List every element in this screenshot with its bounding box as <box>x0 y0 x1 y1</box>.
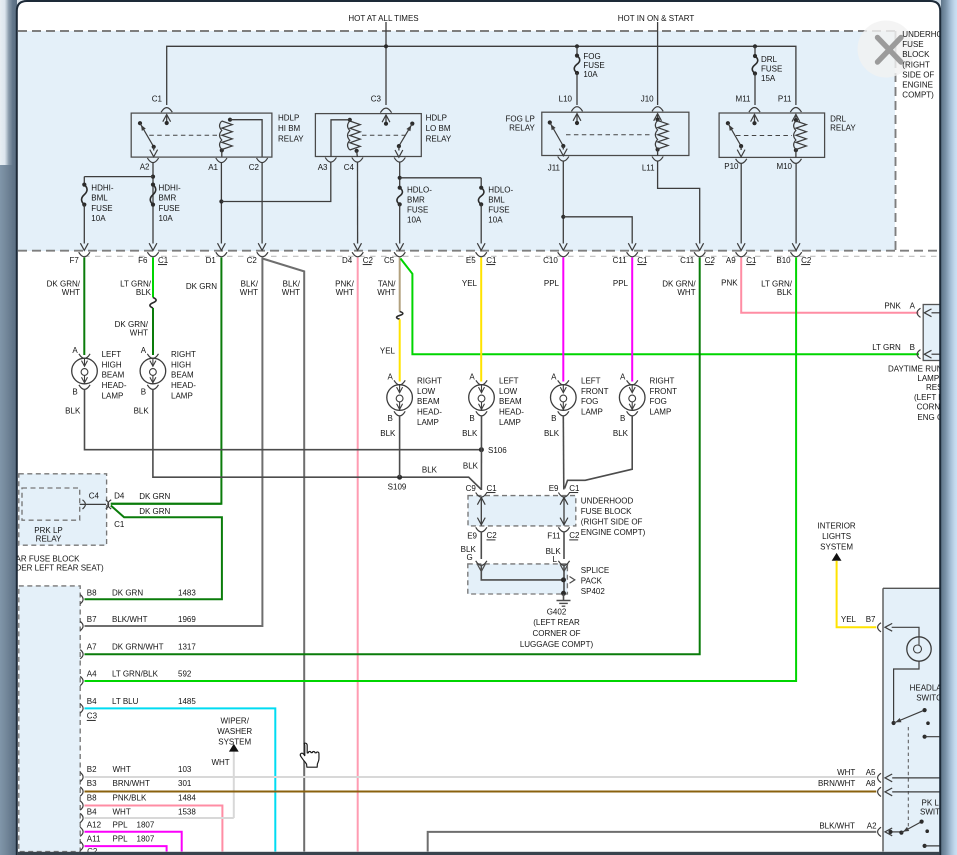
box2 internal wire left <box>480 497 482 526</box>
wire J11 to C10 <box>562 162 564 244</box>
rear fuse block pin B4 WHT <box>80 813 83 822</box>
svg-text:J11: J11 <box>548 164 561 173</box>
svg-text:HDLO-: HDLO- <box>488 185 513 194</box>
connector C9 C1 <box>476 493 487 498</box>
svg-text:C11: C11 <box>613 256 628 265</box>
svg-text:B: B <box>72 387 77 396</box>
svg-text:BRN/WHT: BRN/WHT <box>113 779 150 788</box>
wire C2 BLK/WHT to B7 <box>85 258 263 627</box>
junction dot J11 branch <box>561 215 565 219</box>
svg-text:HEAD-: HEAD- <box>171 381 196 390</box>
connector F6 C1 at fuse block output <box>147 252 158 257</box>
svg-text:M11: M11 <box>736 95 752 104</box>
svg-text:HDHI-: HDHI- <box>159 183 182 192</box>
svg-text:1969: 1969 <box>178 615 196 624</box>
svg-text:L: L <box>553 555 558 564</box>
svg-text:C2: C2 <box>705 256 716 265</box>
svg-text:HOT IN ON & START: HOT IN ON & START <box>618 14 695 23</box>
svg-text:C4: C4 <box>344 163 355 172</box>
svg-text:J10: J10 <box>641 95 654 104</box>
svg-text:B: B <box>469 414 474 423</box>
pin A2 <box>147 158 158 163</box>
svg-text:SPLICE: SPLICE <box>581 566 609 575</box>
wire branch to HDHI-BML fuse <box>84 176 153 178</box>
svg-text:WHT: WHT <box>130 328 148 337</box>
svg-text:HIGH: HIGH <box>102 360 122 369</box>
svg-text:PPL: PPL <box>613 279 629 288</box>
lamp RIGHT LOW BEAM HEADLAMP <box>394 380 405 385</box>
svg-text:YEL: YEL <box>462 279 478 288</box>
svg-text:F6: F6 <box>138 256 148 265</box>
relay DRL RELAY box <box>719 113 825 157</box>
wire B4 LT BLU <box>85 708 276 851</box>
svg-text:HDHI-: HDHI- <box>91 183 114 192</box>
lamp LEFT HIGH BEAM HEADLAMP <box>79 354 90 359</box>
junction dot A1/A3 <box>219 199 223 203</box>
svg-text:BLK: BLK <box>65 406 81 415</box>
svg-text:A: A <box>387 372 393 381</box>
pin C1 connector <box>161 108 172 113</box>
wire left high beam B BLK to S106 <box>85 390 482 450</box>
svg-text:C5: C5 <box>384 256 395 265</box>
svg-text:BLK/WHT: BLK/WHT <box>819 822 855 831</box>
wire branch to C11 <box>563 217 632 244</box>
svg-text:WHT: WHT <box>677 288 695 297</box>
relay 4 switch <box>726 121 730 125</box>
svg-text:SYSTEM: SYSTEM <box>218 737 251 746</box>
svg-text:BML: BML <box>91 194 108 203</box>
wire DK GRN 2 / C1 to B8 <box>85 506 222 600</box>
svg-text:RIGHT: RIGHT <box>650 376 675 385</box>
svg-text:M10: M10 <box>776 162 792 171</box>
pin A3 <box>325 158 336 163</box>
splice pack internal wires <box>477 564 485 571</box>
wire L11 to C11 C2 <box>658 162 700 244</box>
fuse HDHI-BMR FUSE 10A <box>151 183 155 187</box>
relay 2 coil <box>348 118 352 122</box>
wire B2 WHT to A5 <box>85 776 877 778</box>
svg-text:FUSE: FUSE <box>488 205 509 214</box>
svg-text:LT GRN: LT GRN <box>872 343 901 352</box>
rear fuse block pin B8 PNK/BLK <box>80 801 83 810</box>
relay PRK LP RELAY box <box>22 488 80 520</box>
underhood fuse block (right side of engine compt) box <box>468 496 576 526</box>
wire B4 WHT 1538 <box>85 817 234 819</box>
wire M10 to B10 <box>795 163 797 243</box>
svg-text:HEAD-: HEAD- <box>102 381 127 390</box>
svg-text:RELAY: RELAY <box>426 134 452 143</box>
svg-text:FUSE: FUSE <box>159 204 180 213</box>
svg-text:C1: C1 <box>114 520 125 529</box>
pin P10 <box>736 159 747 164</box>
svg-text:LAMP: LAMP <box>581 408 603 417</box>
connector C4/D4 inline <box>106 500 109 509</box>
svg-text:10A: 10A <box>488 215 503 224</box>
svg-text:LAMP: LAMP <box>171 392 193 401</box>
wire F6 LT GRN/BLK <box>152 258 154 298</box>
svg-text:B4: B4 <box>87 697 97 706</box>
wire E5 YEL <box>480 258 482 382</box>
relay 4 coil link dashed <box>736 135 792 137</box>
svg-text:UNDERHOOD: UNDERHOOD <box>581 496 634 505</box>
pin J11 <box>558 157 569 162</box>
svg-text:PNK/BLK: PNK/BLK <box>113 794 147 803</box>
connector row fine dashed line <box>84 255 941 257</box>
wire BLK G <box>480 532 482 560</box>
lamp headlamp switch illumination <box>907 637 931 661</box>
rear fuse block pin A11 PPL <box>80 842 83 851</box>
underhood fuse block region fill <box>18 31 895 251</box>
rear fuse block pin B8 DK GRN 1483 <box>80 595 83 604</box>
junction dot A2 branch <box>151 175 155 179</box>
junction dot bus/FOG FUSE <box>575 44 579 48</box>
relay HDLP LO BM RELAY box <box>315 114 421 157</box>
relay 3 coil <box>656 117 660 121</box>
svg-text:BLK: BLK <box>380 429 396 438</box>
relay 4 coil <box>794 118 798 122</box>
wire fuse to F7 <box>83 205 85 244</box>
svg-text:B8: B8 <box>87 794 97 803</box>
svg-text:RIGHT: RIGHT <box>417 376 442 385</box>
pin L11 <box>652 157 663 162</box>
connector E9 C2 <box>476 527 487 532</box>
connector C2 at fuse block output <box>257 252 268 257</box>
wire right low beam B BLK <box>399 417 401 478</box>
fuse FOG FUSE 10A <box>576 46 578 55</box>
svg-text:1317: 1317 <box>178 642 196 651</box>
connector F11 C2 <box>558 527 569 532</box>
wire C5 YEL to right low beam <box>399 319 401 381</box>
svg-text:1484: 1484 <box>178 794 196 803</box>
svg-text:PPL: PPL <box>113 821 129 830</box>
box2 internal wire right <box>563 497 565 526</box>
ground G402 <box>563 594 565 600</box>
connector D4 C2 at fuse block output <box>352 252 363 257</box>
svg-text:D4: D4 <box>342 256 353 265</box>
svg-text:LUGGAGE COMPT): LUGGAGE COMPT) <box>520 640 594 649</box>
pin A1 <box>216 158 227 163</box>
arrow to interior lights system <box>832 553 842 561</box>
rear fuse block pin A4 LT GRN/BLK 592 <box>80 676 83 685</box>
daytime running lamps resistor box <box>923 305 957 361</box>
svg-text:FUSE BLOCK: FUSE BLOCK <box>581 507 632 516</box>
svg-text:BLK: BLK <box>136 288 152 297</box>
wire relay2 switch to C5 <box>399 162 401 187</box>
relay 2 switch <box>410 122 414 126</box>
svg-text:WHT: WHT <box>113 765 131 774</box>
rear fuse block pin A7 DK GRN/WHT 1317 <box>80 650 83 659</box>
relay 1 switch <box>138 121 142 125</box>
svg-text:E5: E5 <box>466 256 476 265</box>
svg-text:WHT: WHT <box>113 807 131 816</box>
svg-text:A3: A3 <box>318 163 328 172</box>
svg-text:BEAM: BEAM <box>499 397 522 406</box>
svg-text:HDLP: HDLP <box>426 113 447 122</box>
splice pack input cups <box>476 561 487 566</box>
svg-text:A1: A1 <box>208 163 218 172</box>
svg-text:DK GRN: DK GRN <box>139 507 170 516</box>
svg-text:LEFT: LEFT <box>499 376 519 385</box>
svg-text:P10: P10 <box>724 162 739 171</box>
svg-text:A: A <box>141 346 147 355</box>
svg-text:PPL: PPL <box>544 279 560 288</box>
junction dot SP402 <box>561 577 566 582</box>
svg-text:WHT: WHT <box>240 288 258 297</box>
svg-text:BEAM: BEAM <box>102 371 125 380</box>
svg-text:B8: B8 <box>87 588 97 597</box>
svg-text:A7: A7 <box>87 642 97 651</box>
svg-text:B7: B7 <box>87 615 97 624</box>
svg-text:RELAY: RELAY <box>830 124 856 133</box>
svg-text:C1: C1 <box>486 256 497 265</box>
svg-text:DAYTIME RUN: DAYTIME RUN <box>888 364 943 373</box>
svg-text:15A: 15A <box>761 74 776 83</box>
lamp LEFT FRONT FOG LAMP <box>558 380 569 385</box>
svg-text:E9: E9 <box>467 532 477 541</box>
park lamp switch contacts <box>888 830 892 834</box>
svg-text:AR FUSE BLOCK: AR FUSE BLOCK <box>16 554 81 563</box>
relay 1 coil to A1 wire <box>221 150 223 156</box>
svg-text:A2: A2 <box>867 822 877 831</box>
mechanical link dashed <box>907 727 909 829</box>
svg-text:S106: S106 <box>488 446 507 455</box>
svg-text:PPL: PPL <box>113 834 129 843</box>
wire C5 LT GRN branch to DRL resistor <box>401 259 920 355</box>
svg-text:E9: E9 <box>549 484 559 493</box>
svg-text:C3: C3 <box>87 712 98 721</box>
relay FOG LP RELAY box <box>542 112 689 155</box>
svg-text:BEAM: BEAM <box>171 371 194 380</box>
svg-text:B7: B7 <box>866 615 876 624</box>
wire BLK/WHT to A2 <box>428 832 877 852</box>
wire B7 to dome lamp <box>892 627 919 637</box>
pin M11 connector <box>749 108 760 113</box>
close button <box>858 21 915 78</box>
svg-text:SYSTEM: SYSTEM <box>820 542 853 551</box>
connector B7 headlamp switch <box>878 623 881 632</box>
junction dot SP402 bottom <box>561 591 566 596</box>
headlamp switch box <box>883 588 957 851</box>
svg-text:C2: C2 <box>801 256 812 265</box>
svg-text:1807: 1807 <box>137 834 155 843</box>
svg-text:B3: B3 <box>87 779 97 788</box>
connector C11 C2 at fuse block output <box>694 252 705 257</box>
wire C4 to D4 <box>357 162 359 243</box>
svg-text:301: 301 <box>178 779 192 788</box>
fuse DRL FUSE 15A <box>754 46 756 56</box>
pin C2 <box>257 158 268 163</box>
svg-text:BLK: BLK <box>422 466 438 475</box>
wire A12 PPL <box>85 832 182 852</box>
svg-text:LAMP: LAMP <box>650 408 672 417</box>
svg-text:FUSE: FUSE <box>91 204 112 213</box>
svg-text:A: A <box>469 372 475 381</box>
svg-text:ENGINE: ENGINE <box>902 80 933 89</box>
svg-text:F7: F7 <box>69 256 79 265</box>
lamp RIGHT HIGH BEAM HEADLAMP <box>147 354 158 359</box>
svg-text:BLK: BLK <box>134 406 150 415</box>
svg-text:FRONT: FRONT <box>650 387 678 396</box>
svg-text:PACK: PACK <box>581 576 603 585</box>
svg-text:PNK: PNK <box>884 301 901 310</box>
svg-text:WHT: WHT <box>62 288 80 297</box>
svg-text:WASHER: WASHER <box>217 727 252 736</box>
svg-text:A: A <box>72 346 78 355</box>
svg-text:B: B <box>910 343 915 352</box>
fuse HDLO-BML FUSE 10A <box>479 186 483 190</box>
svg-text:RELAY: RELAY <box>36 535 62 544</box>
wire C2 BLK/WHT branch 2 <box>262 259 304 852</box>
svg-text:A9: A9 <box>726 256 736 265</box>
splice C5 wire <box>397 312 403 320</box>
relay 3 switch <box>548 120 552 124</box>
svg-text:A11: A11 <box>87 834 101 843</box>
svg-text:L10: L10 <box>559 95 573 104</box>
svg-text:BMR: BMR <box>159 194 177 203</box>
connector E5 C1 at fuse block output <box>476 252 487 257</box>
wire C11 DK GRN/WHT to A7 <box>85 258 700 655</box>
arrow to wiper/washer system <box>229 744 239 752</box>
svg-text:C11: C11 <box>680 256 695 265</box>
wire B+ bus <box>167 46 796 105</box>
svg-text:DER LEFT REAR SEAT): DER LEFT REAR SEAT) <box>16 564 105 573</box>
svg-text:BEAM: BEAM <box>417 397 440 406</box>
svg-text:A2: A2 <box>140 163 150 172</box>
wire D1 DK GRN <box>111 258 222 504</box>
pin relay2 switch out <box>394 158 405 163</box>
wire P10 to A9 <box>740 163 742 243</box>
svg-text:FUSE: FUSE <box>902 40 923 49</box>
svg-text:BLK: BLK <box>777 288 793 297</box>
svg-text:DK GRN: DK GRN <box>139 492 170 501</box>
pin J10 connector <box>652 107 663 112</box>
svg-text:FUSE: FUSE <box>583 61 604 70</box>
wire F6 DK GRN/WHT to right high beam <box>152 308 154 355</box>
svg-text:103: 103 <box>178 765 192 774</box>
svg-text:FUSE: FUSE <box>761 64 782 73</box>
svg-text:C2: C2 <box>363 256 374 265</box>
svg-text:HI BM: HI BM <box>278 124 301 133</box>
lamp RIGHT FRONT FOG LAMP <box>627 380 638 385</box>
svg-text:1485: 1485 <box>178 697 196 706</box>
svg-text:A8: A8 <box>866 779 876 788</box>
svg-text:FOG: FOG <box>581 397 598 406</box>
svg-text:B2: B2 <box>87 765 97 774</box>
rear fuse block pin B2 WHT <box>80 772 83 781</box>
svg-text:HEAD-: HEAD- <box>417 408 442 417</box>
svg-text:B4: B4 <box>87 807 97 816</box>
wire HOT AT ALL TIMES feed <box>385 22 387 105</box>
svg-text:LAMP: LAMP <box>417 418 439 427</box>
svg-text:BMR: BMR <box>407 195 425 204</box>
svg-text:C10: C10 <box>543 256 558 265</box>
wire C11 PPL <box>631 258 633 382</box>
svg-text:SP402: SP402 <box>581 587 606 596</box>
connector A5 WHT <box>878 773 881 782</box>
rear fuse block pin B3 BRN/WHT <box>80 787 83 796</box>
svg-text:DK GRN: DK GRN <box>112 588 143 597</box>
svg-text:BLK: BLK <box>463 462 479 471</box>
corner fillers <box>16 0 27 10</box>
svg-text:INTERIOR: INTERIOR <box>817 521 855 530</box>
svg-text:BLK: BLK <box>613 429 629 438</box>
svg-text:LT BLU: LT BLU <box>112 697 139 706</box>
wire DK GRN 1 to D1 <box>111 503 222 505</box>
rear fuse block (under left rear seat) box <box>19 586 80 852</box>
connector C5 at fuse block output <box>394 252 405 257</box>
svg-text:DK GRN: DK GRN <box>186 282 217 291</box>
svg-text:G: G <box>466 553 472 562</box>
svg-text:ENGINE COMPT): ENGINE COMPT) <box>581 528 646 537</box>
pin C4 <box>352 158 363 163</box>
wire C10 PPL <box>562 258 564 382</box>
lamp LEFT LOW BEAM HEADLAMP <box>476 380 487 385</box>
splice F6 wire <box>150 298 156 309</box>
connector F7 at fuse block output <box>79 252 90 257</box>
svg-text:HIGH: HIGH <box>171 360 191 369</box>
wire C2 pin down <box>261 163 263 244</box>
wire right front fog B BLK <box>565 417 633 489</box>
svg-text:BLK/WHT: BLK/WHT <box>112 615 148 624</box>
svg-text:YEL: YEL <box>841 615 857 624</box>
svg-text:DRL: DRL <box>761 55 778 64</box>
pin C3 connector <box>380 108 391 113</box>
relay HDLP HI BM RELAY box <box>131 113 272 157</box>
svg-text:(RIGHT SIDE OF: (RIGHT SIDE OF <box>581 517 643 526</box>
svg-text:YEL: YEL <box>380 346 396 355</box>
right scrollbar <box>941 0 957 855</box>
wire B10 LT GRN/BLK to A4 <box>85 258 797 682</box>
svg-text:LOW: LOW <box>499 387 518 396</box>
svg-text:A: A <box>910 301 916 310</box>
svg-text:1538: 1538 <box>178 807 196 816</box>
svg-text:COMPT): COMPT) <box>902 90 934 99</box>
wire A1 to D1 <box>220 163 222 244</box>
wire HOT IN ON &amp; START feed <box>657 22 659 105</box>
bottom bar <box>18 852 940 855</box>
svg-text:D4: D4 <box>114 492 125 501</box>
wire B3 BRN/WHT to A8 <box>85 791 877 793</box>
svg-text:10A: 10A <box>407 215 422 224</box>
svg-text:HOT AT ALL TIMES: HOT AT ALL TIMES <box>348 14 418 23</box>
svg-text:FRONT: FRONT <box>581 387 609 396</box>
connector E9 C1 <box>558 493 569 498</box>
svg-text:B: B <box>620 414 625 423</box>
pin P11 connector <box>790 108 801 113</box>
connector D1 at fuse block output <box>216 252 227 257</box>
wire PRK LP relay output <box>80 503 106 505</box>
svg-text:A: A <box>620 372 626 381</box>
svg-text:LT GRN/BLK: LT GRN/BLK <box>112 670 159 679</box>
svg-text:RELAY: RELAY <box>509 124 535 133</box>
fuse HDLO-BMR FUSE 10A <box>398 186 402 190</box>
svg-text:DK GRN/WHT: DK GRN/WHT <box>112 642 164 651</box>
wire WHT branch to wiper/washer <box>233 752 235 819</box>
svg-text:C4: C4 <box>89 492 100 501</box>
svg-text:BLK: BLK <box>462 429 478 438</box>
svg-text:SIDE OF: SIDE OF <box>902 70 934 79</box>
connector C4 cup <box>83 500 86 509</box>
wire D4 PNK/WHT <box>357 258 359 852</box>
connector A resistor <box>917 308 920 317</box>
wire lamp to switch <box>894 661 919 721</box>
connector B10 C2 at fuse block output <box>791 252 802 257</box>
wire A2 to F6 <box>152 163 154 244</box>
wire left low beam B BLK <box>480 417 482 491</box>
pin M10 <box>790 159 801 164</box>
svg-text:(RIGHT: (RIGHT <box>902 60 930 69</box>
relay 1 coil <box>228 118 232 122</box>
